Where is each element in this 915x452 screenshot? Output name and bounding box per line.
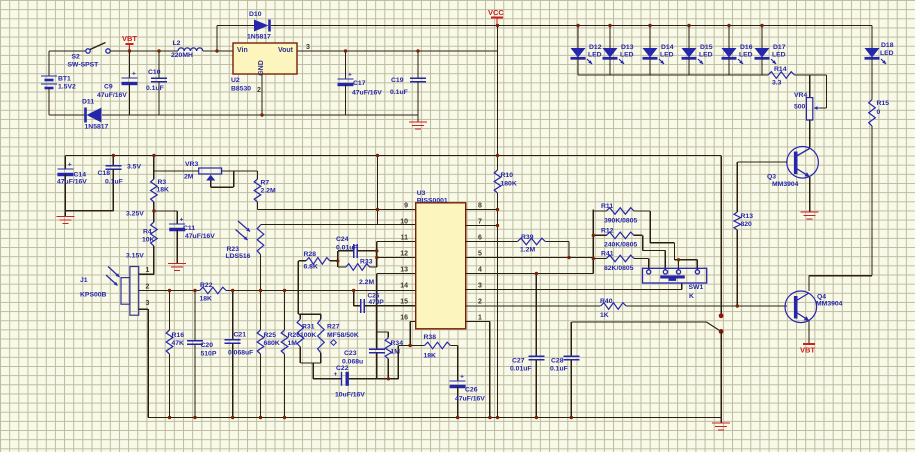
svg-text:0.068u: 0.068u bbox=[342, 359, 363, 366]
svg-text:R7: R7 bbox=[261, 180, 270, 187]
svg-text:R15: R15 bbox=[877, 100, 890, 107]
resistor R34 1M bbox=[377, 331, 389, 333]
wire pin13 net down through C23 bbox=[377, 273, 416, 275]
wire LED cathode rail bbox=[578, 74, 768, 76]
wire U2 GND to ground rail bbox=[261, 74, 263, 115]
svg-text:C20: C20 bbox=[201, 342, 214, 349]
resistor R11 390K/0805 bbox=[592, 210, 594, 274]
wire pin3 net to SW1 bbox=[466, 289, 682, 291]
capacitor C18 0.1uF bbox=[112, 156, 114, 166]
svg-text:R3: R3 bbox=[158, 179, 167, 186]
resistor R7 2.2M bbox=[257, 171, 259, 179]
svg-text:0.1uF: 0.1uF bbox=[146, 85, 164, 92]
resistor R10 180K bbox=[494, 170, 501, 193]
svg-text:U3: U3 bbox=[417, 190, 426, 197]
svg-text:+: + bbox=[132, 71, 136, 78]
svg-text:2.2M: 2.2M bbox=[261, 188, 276, 195]
svg-text:10: 10 bbox=[400, 219, 408, 226]
svg-text:L2: L2 bbox=[173, 40, 181, 47]
svg-text:C17: C17 bbox=[353, 80, 366, 87]
wire R31 R27 bottoms bbox=[300, 362, 321, 364]
svg-text:R23: R23 bbox=[227, 246, 240, 253]
svg-text:MF58/50K: MF58/50K bbox=[327, 332, 359, 339]
svg-text:2.2M: 2.2M bbox=[359, 279, 374, 286]
svg-text:11: 11 bbox=[401, 235, 409, 242]
svg-text:0.01uF: 0.01uF bbox=[336, 245, 358, 252]
potentiometer VR3 2M bbox=[154, 170, 199, 172]
wire top VCC rail bbox=[271, 25, 872, 27]
ground bottom right bbox=[720, 418, 722, 424]
inductor L2 220MH bbox=[178, 48, 203, 51]
svg-text:2: 2 bbox=[478, 299, 482, 306]
wire pin7 net bbox=[466, 225, 498, 227]
resistor R3 18K bbox=[153, 156, 155, 180]
wire battery bottom bbox=[48, 88, 50, 115]
svg-text:D10: D10 bbox=[249, 11, 262, 18]
wire switch node to ground bbox=[720, 331, 722, 417]
wire Q4 emitter to VBT bbox=[808, 321, 810, 344]
svg-text:C10: C10 bbox=[148, 69, 161, 76]
wire SW1 pin3 stub bbox=[678, 260, 680, 270]
svg-text:R39: R39 bbox=[521, 234, 534, 241]
ground of input stage bbox=[417, 115, 419, 122]
svg-text:1M: 1M bbox=[288, 340, 298, 347]
svg-text:18K: 18K bbox=[157, 187, 170, 194]
LED D17 bbox=[761, 26, 763, 49]
switch SW1 K bbox=[643, 268, 707, 283]
svg-text:C14: C14 bbox=[74, 172, 87, 179]
svg-text:LED: LED bbox=[660, 52, 674, 59]
svg-text:820: 820 bbox=[741, 221, 753, 228]
svg-text:VBT: VBT bbox=[122, 34, 137, 43]
svg-text:C22: C22 bbox=[336, 365, 349, 372]
svg-text:VCC: VCC bbox=[488, 8, 504, 17]
svg-text:1.2M: 1.2M bbox=[520, 247, 535, 254]
svg-text:+: + bbox=[180, 217, 184, 224]
svg-text:2M: 2M bbox=[184, 174, 194, 181]
wire VCC vertical bbox=[497, 26, 499, 171]
capacitor C28 0.1uF bbox=[570, 322, 572, 356]
wire Q3 base bbox=[737, 161, 787, 163]
svg-text:D16: D16 bbox=[740, 44, 753, 51]
svg-text:SW1: SW1 bbox=[689, 284, 704, 291]
svg-text:R11: R11 bbox=[601, 203, 613, 210]
wire rail drop to pin10 net bbox=[377, 156, 379, 225]
diode D11 1N5817 bbox=[49, 114, 85, 116]
svg-text:SW-SPST: SW-SPST bbox=[68, 62, 100, 69]
wire U2 Vout to VCC bbox=[297, 50, 498, 52]
transistor Q4 MM3904 bbox=[785, 291, 817, 323]
svg-text:LED: LED bbox=[620, 52, 634, 59]
svg-text:C23: C23 bbox=[344, 350, 357, 357]
LED D12 bbox=[577, 26, 579, 49]
svg-text:C28: C28 bbox=[551, 358, 564, 365]
wire Q3 emitter to ground bbox=[809, 177, 811, 212]
resistor R28 6.8K bbox=[298, 260, 306, 262]
capacitor C14 47uF/16V bbox=[64, 156, 66, 170]
svg-text:470P: 470P bbox=[369, 299, 385, 306]
svg-text:D14: D14 bbox=[661, 44, 674, 51]
svg-text:R26: R26 bbox=[288, 332, 301, 339]
svg-text:D18: D18 bbox=[881, 42, 894, 49]
svg-text:LED: LED bbox=[588, 52, 602, 59]
wire C14 C18 ground loop bbox=[65, 210, 113, 212]
power VCC bbox=[491, 17, 503, 19]
svg-text:4: 4 bbox=[478, 267, 482, 274]
svg-text:R25: R25 bbox=[264, 332, 277, 339]
LED D16 bbox=[728, 26, 730, 49]
wire pin16 to R38 bbox=[410, 321, 416, 323]
svg-text:1.5V2: 1.5V2 bbox=[58, 84, 76, 91]
wire pin11 net bbox=[377, 241, 416, 243]
svg-text:0.01uF: 0.01uF bbox=[510, 366, 532, 373]
svg-text:Vin: Vin bbox=[237, 47, 248, 54]
svg-text:7: 7 bbox=[478, 219, 482, 226]
svg-text:Q4: Q4 bbox=[817, 294, 826, 301]
wire switch stub bbox=[571, 321, 706, 323]
wire pin4 net bbox=[466, 273, 594, 275]
capacitor C20 510P bbox=[194, 291, 196, 341]
resistor R14 3.3 bbox=[768, 72, 795, 79]
svg-text:1K: 1K bbox=[600, 312, 609, 319]
capacitor C9 47uF/16V bbox=[129, 51, 131, 78]
svg-text:47uF/16V: 47uF/16V bbox=[185, 233, 215, 240]
svg-text:R31: R31 bbox=[302, 324, 315, 331]
svg-text:C11: C11 bbox=[183, 225, 195, 232]
wire 3.25V to C11 bbox=[154, 210, 177, 212]
svg-text:9: 9 bbox=[404, 203, 408, 210]
capacitor C25 470P bbox=[353, 291, 355, 306]
capacitor C17 47uF/16V bbox=[345, 51, 347, 79]
svg-text:6: 6 bbox=[478, 235, 482, 242]
wire rail down to switch bbox=[720, 156, 722, 316]
node switch lower bbox=[719, 329, 724, 334]
svg-text:82K/0805: 82K/0805 bbox=[604, 265, 634, 272]
svg-text:C21: C21 bbox=[234, 332, 247, 339]
wire R23 to pin14 net bbox=[260, 255, 262, 291]
svg-text:LED: LED bbox=[772, 52, 786, 59]
junction dots bbox=[128, 49, 131, 52]
svg-text:+: + bbox=[68, 162, 72, 169]
svg-text:C19: C19 bbox=[391, 77, 404, 84]
svg-text:D12: D12 bbox=[589, 44, 602, 51]
svg-text:D13: D13 bbox=[621, 44, 634, 51]
wire battery top to switch bbox=[49, 50, 86, 52]
svg-text:3.15V: 3.15V bbox=[126, 253, 144, 260]
svg-text:1N5817: 1N5817 bbox=[85, 124, 109, 131]
ground below C14 bbox=[56, 216, 74, 218]
wire pin10 net bbox=[261, 224, 416, 226]
resistor R31 100K bbox=[299, 314, 301, 319]
svg-text:47uF/16V: 47uF/16V bbox=[57, 179, 87, 186]
svg-text:MM3904: MM3904 bbox=[772, 181, 799, 188]
svg-text:R12: R12 bbox=[601, 228, 614, 235]
svg-text:13: 13 bbox=[400, 267, 408, 274]
svg-text:VBT: VBT bbox=[800, 346, 815, 355]
svg-text:R13: R13 bbox=[741, 213, 754, 220]
svg-text:3.5V: 3.5V bbox=[127, 164, 141, 171]
switch arm to node bbox=[706, 322, 719, 330]
svg-text:47uF/16V: 47uF/16V bbox=[352, 90, 382, 97]
svg-text:5: 5 bbox=[478, 251, 482, 258]
LED D15 bbox=[688, 26, 690, 49]
svg-text:6.8K: 6.8K bbox=[304, 264, 318, 271]
resistor R12 240K/0805 bbox=[593, 234, 606, 236]
svg-text:1: 1 bbox=[146, 267, 150, 274]
resistor R25 680K bbox=[260, 291, 262, 331]
capacitor C27 0.01uF bbox=[535, 274, 537, 357]
wire pin8 net bbox=[466, 209, 498, 211]
wire R28 to R31 R27 bbox=[297, 261, 299, 314]
svg-text:500: 500 bbox=[794, 104, 806, 111]
svg-text:240K/0805: 240K/0805 bbox=[604, 242, 637, 249]
ground below Q3 bbox=[801, 211, 819, 213]
svg-text:390K/0805: 390K/0805 bbox=[604, 218, 637, 225]
resistor R40 1K bbox=[601, 303, 626, 310]
battery BT1 bbox=[41, 75, 57, 77]
svg-text:R28: R28 bbox=[304, 251, 317, 258]
svg-text:2: 2 bbox=[257, 87, 261, 94]
svg-text:0.1uF: 0.1uF bbox=[105, 179, 123, 186]
svg-text:S2: S2 bbox=[72, 54, 81, 61]
svg-text:3: 3 bbox=[146, 300, 150, 307]
svg-text:R22: R22 bbox=[200, 282, 213, 289]
svg-text:+: + bbox=[334, 371, 338, 378]
power VBT bbox=[126, 43, 134, 45]
svg-text:10uF/16V: 10uF/16V bbox=[335, 392, 365, 399]
svg-text:VR4: VR4 bbox=[794, 92, 807, 99]
svg-text:680K: 680K bbox=[264, 340, 280, 347]
LED D14 bbox=[649, 26, 651, 49]
wire pin5 net bbox=[466, 257, 594, 259]
svg-text:R14: R14 bbox=[774, 66, 787, 73]
svg-text:47K: 47K bbox=[172, 340, 185, 347]
potentiometer VR4 500 bbox=[809, 75, 811, 98]
capacitor C26 47uF/16V bbox=[450, 380, 466, 382]
svg-text:0: 0 bbox=[877, 109, 881, 116]
photoresistor R23 LDS516 bbox=[257, 225, 264, 255]
svg-text:LED: LED bbox=[880, 50, 894, 57]
svg-text:18K: 18K bbox=[424, 353, 437, 360]
svg-text:C27: C27 bbox=[512, 358, 525, 365]
thermistor R27 MF58/50K bbox=[320, 314, 322, 319]
IC U3 BISS0001 bbox=[416, 203, 466, 329]
svg-text:3.3: 3.3 bbox=[772, 80, 782, 87]
wire switch to U2 Vin bbox=[110, 50, 178, 52]
svg-text:GND: GND bbox=[258, 60, 265, 76]
resistor R4 10K bbox=[151, 222, 158, 246]
svg-text:BT1: BT1 bbox=[58, 76, 71, 83]
svg-text:C9: C9 bbox=[104, 84, 113, 91]
svg-text:R38: R38 bbox=[424, 334, 437, 341]
resistor R39 1.2M bbox=[518, 238, 546, 245]
svg-text:C26: C26 bbox=[465, 387, 478, 394]
svg-text:MM3904: MM3904 bbox=[816, 301, 843, 308]
svg-text:12: 12 bbox=[400, 251, 408, 258]
svg-text:0.1uF: 0.1uF bbox=[390, 89, 408, 96]
resistor R15 0 bbox=[869, 100, 876, 127]
svg-text:220MH: 220MH bbox=[171, 52, 193, 59]
wire 3.5V rail bbox=[65, 155, 721, 157]
svg-text:47uF/16V: 47uF/16V bbox=[455, 396, 485, 403]
wire R11 staircase to SW1 bbox=[634, 210, 650, 212]
op-amp U2 B8530 regulator bbox=[233, 43, 297, 74]
power VBT below Q4 bbox=[803, 343, 815, 345]
svg-text:B8530: B8530 bbox=[231, 86, 251, 93]
ground below C11 bbox=[168, 263, 186, 265]
wire R39 to pin5 net bbox=[545, 241, 569, 243]
svg-text:3: 3 bbox=[478, 283, 482, 290]
resistor R22 18K bbox=[200, 287, 227, 294]
resistor R38 18K bbox=[425, 342, 451, 349]
svg-text:Vout: Vout bbox=[278, 47, 294, 54]
wire R38 to C26 bbox=[450, 345, 457, 347]
wire D10 bypass branch bbox=[216, 26, 218, 52]
svg-text:100K: 100K bbox=[300, 332, 316, 339]
svg-text:R10: R10 bbox=[501, 172, 514, 179]
svg-text:U2: U2 bbox=[231, 77, 240, 84]
svg-text:KPS00B: KPS00B bbox=[80, 292, 107, 299]
capacitor C21 0.068uF bbox=[232, 291, 234, 340]
wire R14 to VR4 wiper bbox=[795, 74, 827, 76]
resistor R26 1M bbox=[284, 291, 286, 331]
diode D18 LED bbox=[871, 26, 873, 49]
wire R41 to SW1 bbox=[634, 258, 649, 260]
svg-text:+: + bbox=[460, 374, 464, 381]
connector J1 KPS00B bbox=[130, 267, 139, 316]
capacitor C19 0.1uF bbox=[417, 51, 419, 78]
resistor R16 47K bbox=[169, 291, 171, 331]
capacitor C10 0.1uF bbox=[158, 51, 160, 78]
svg-text:R41: R41 bbox=[601, 251, 614, 258]
svg-text:R33: R33 bbox=[360, 259, 373, 266]
svg-text:R4: R4 bbox=[143, 229, 152, 236]
resistor R13 820 bbox=[736, 162, 738, 212]
svg-text:K: K bbox=[689, 293, 694, 300]
resistor R41 82K/0805 bbox=[593, 258, 606, 260]
svg-text:15: 15 bbox=[400, 299, 408, 306]
svg-text:47uF/16V: 47uF/16V bbox=[97, 92, 127, 99]
svg-text:C18: C18 bbox=[98, 170, 111, 177]
svg-text:D11: D11 bbox=[82, 99, 94, 106]
wire R7 to U3 pin9 bbox=[258, 209, 416, 211]
wire pin1 net to ground rail bbox=[466, 321, 490, 323]
svg-text:16: 16 bbox=[400, 315, 408, 322]
wire pin14 net bbox=[139, 290, 200, 292]
svg-text:D15: D15 bbox=[700, 44, 713, 51]
svg-text:R27: R27 bbox=[327, 324, 340, 331]
svg-text:D17: D17 bbox=[773, 44, 786, 51]
svg-text:R40: R40 bbox=[600, 298, 613, 305]
svg-text:180K: 180K bbox=[501, 181, 517, 188]
svg-text:0.068uF: 0.068uF bbox=[228, 350, 253, 357]
svg-text:0.1uF: 0.1uF bbox=[550, 366, 568, 373]
svg-text:LED: LED bbox=[699, 52, 713, 59]
svg-text:510P: 510P bbox=[201, 351, 217, 358]
wire bottom ground rail bbox=[148, 417, 721, 419]
svg-text:18K: 18K bbox=[200, 296, 213, 303]
svg-text:10K: 10K bbox=[142, 237, 155, 244]
svg-text:8: 8 bbox=[478, 203, 482, 210]
parallel block C24 R33 bbox=[337, 251, 339, 267]
wire pin12 net bbox=[377, 257, 416, 259]
node switch upper bbox=[719, 313, 724, 318]
wire R12 to SW1 bbox=[634, 234, 643, 236]
capacitor C11 47uF/16V bbox=[169, 223, 185, 225]
svg-text:BISS0001: BISS0001 bbox=[417, 197, 448, 204]
resistor R33 2.2M bbox=[338, 266, 346, 268]
svg-text:3.25V: 3.25V bbox=[126, 211, 144, 218]
capacitor C24 0.01uF bbox=[338, 250, 354, 252]
svg-text:VR3: VR3 bbox=[185, 161, 198, 168]
wire pin6 net bbox=[466, 241, 518, 243]
svg-text:J1: J1 bbox=[80, 277, 88, 284]
svg-text:LDS516: LDS516 bbox=[226, 253, 251, 260]
LED D13 bbox=[609, 26, 611, 49]
diode D10 1N5817 bbox=[254, 20, 269, 32]
svg-text:1N5817: 1N5817 bbox=[247, 34, 271, 41]
svg-text:1: 1 bbox=[478, 315, 482, 322]
svg-text:14: 14 bbox=[400, 283, 408, 290]
svg-text:Q3: Q3 bbox=[767, 174, 776, 181]
transistor Q3 MM3904 bbox=[787, 147, 819, 179]
switch S2 SW-SPST bbox=[86, 49, 90, 53]
svg-text:2: 2 bbox=[146, 284, 150, 291]
wire R15 to Q4 collector bbox=[871, 126, 873, 276]
wire pin2 net to Q4 base bbox=[466, 305, 601, 307]
svg-text:LED: LED bbox=[739, 52, 753, 59]
svg-text:+: + bbox=[348, 72, 352, 79]
svg-text:3: 3 bbox=[306, 44, 310, 51]
svg-text:R16: R16 bbox=[172, 332, 185, 339]
svg-text:C24: C24 bbox=[336, 236, 349, 243]
capacitor C22 10uF/16V bbox=[313, 378, 341, 380]
wire C22 node up to R38 bbox=[397, 346, 399, 379]
